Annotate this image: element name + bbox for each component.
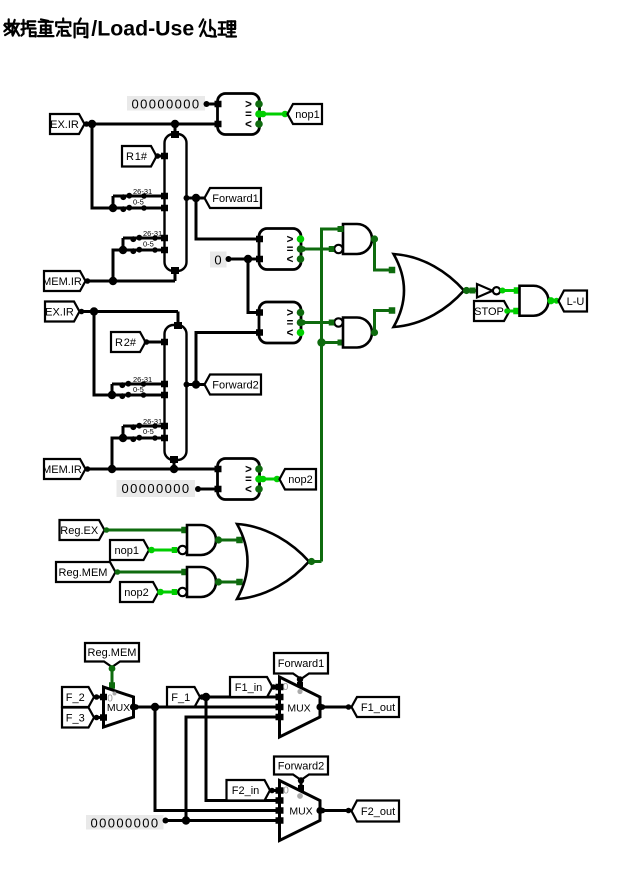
wire F_1 to M2 input1: [199, 694, 280, 700]
svg-text:26-31: 26-31: [133, 187, 152, 196]
wire EX.IR2 row y=311.5: [79, 309, 179, 315]
junction EX.IR at (92,124): [88, 120, 96, 128]
junction SP4 input at (123,438): [119, 434, 127, 442]
svg-text:F_1: F_1: [171, 692, 190, 704]
wire EX.IR junction down to X1 top pin: [174, 124, 177, 132]
svg-text:F1_in: F1_in: [235, 682, 263, 694]
tunnel Reg.MEM (MUX select): [85, 643, 139, 667]
svg-text:Reg.EX: Reg.EX: [60, 525, 99, 537]
tunnel nop2 (input, lower block): [120, 582, 159, 602]
splitter SP3 bits 26-31 / 0-5 of EX.IR: [112, 375, 165, 399]
wire Reg.MEM select to M1: [109, 665, 116, 689]
svg-text:0: 0: [214, 252, 221, 267]
wire EX.IR row y=124: [84, 121, 219, 127]
tunnel F_2: [62, 687, 94, 707]
wire MEM.IR2 row y=469: [85, 466, 218, 472]
wire EX.IR2 corner down to X2 top pin: [177, 312, 180, 327]
junction MEM.IR2 at (112,469): [108, 465, 116, 473]
tunnel R2#: [111, 332, 146, 352]
tunnel Forward2 (MUX select): [274, 757, 328, 781]
svg-text:MUX: MUX: [107, 702, 130, 714]
constant C4 value 00000000 (8-bit): [86, 815, 169, 830]
tunnel EX.IR (block 1): [50, 114, 85, 134]
tunnel STOP: [474, 301, 510, 321]
junction MEM.IR at (113,281): [109, 277, 117, 285]
wire X1 output to Forward1: [187, 197, 205, 200]
wire G6 output to OR G8: [219, 537, 243, 544]
svg-text:R 2#: R 2#: [115, 337, 137, 349]
tunnel nop2 (output of U4): [280, 469, 317, 490]
junction Forward2 at (196,384.5): [192, 380, 200, 388]
svg-text:F2_in: F2_in: [232, 785, 260, 797]
AND gate G5 (stall when STOP): [520, 286, 555, 316]
wire constant-0 down to U3 upper input: [248, 259, 259, 313]
wire F_2 to M1 input0: [94, 694, 104, 700]
wire Forward2 select to M3: [298, 777, 304, 791]
svg-text:F1_out: F1_out: [361, 702, 395, 714]
wire MEM.IR to X1 bottom pin: [174, 271, 177, 281]
wire C2 to U2 lower input: [229, 258, 260, 261]
svg-text:<: <: [287, 328, 294, 340]
wire G4 output to G5 input1: [500, 287, 521, 294]
constant C2 value 0: [210, 252, 232, 268]
svg-text:0-5: 0-5: [133, 385, 144, 394]
wire load-use vertical net x=321.5: [322, 229, 344, 562]
svg-text:R 1#: R 1#: [126, 151, 148, 163]
tunnel MEM.IR (block 1): [42, 271, 85, 291]
wire R2# to X2 pin: [144, 339, 164, 345]
AND gate G7 (Reg.MEM and not nop2): [178, 567, 222, 597]
wire Reg.EX to G6 input1: [104, 527, 188, 534]
svg-text:nop1: nop1: [295, 109, 319, 121]
comparator U4 (MEM.IR = 00000000): [215, 459, 263, 500]
wire G8 output up the load-use vertical: [312, 560, 322, 563]
tunnel R1#: [122, 146, 157, 167]
svg-text:MUX: MUX: [289, 806, 312, 818]
multiplexer M1 (2:1): [100, 687, 137, 727]
tunnel nop1 (input, lower block): [110, 540, 149, 560]
svg-text:Forward1: Forward1: [278, 658, 324, 670]
AND gate G1 (match1 and not-loaduse...): [329, 224, 378, 254]
svg-text:F_2: F_2: [66, 692, 85, 704]
wire MEM.IR2 up to splitter SP4: [112, 438, 123, 469]
wire C4 to M3 input3: [166, 819, 281, 822]
tunnel Forward1 (MUX select): [274, 653, 328, 679]
wire U3 '=' to G2 inverted input: [300, 320, 334, 326]
wire M3 output to F2_out: [320, 808, 352, 814]
OR gate G3: [394, 254, 471, 327]
svg-text:00000000: 00000000: [121, 481, 190, 496]
wire U1 '=' output to tunnel nop1: [260, 111, 289, 118]
wire G5 output to L-U: [551, 298, 560, 304]
comparator U3 (Forward2 vs 0): [256, 302, 304, 343]
tunnel Forward2 (output): [205, 375, 262, 395]
wire Forward1 down to U2 upper input: [196, 198, 259, 239]
tunnel F2_out: [352, 801, 400, 822]
junction SP1 input at (113,208): [109, 204, 117, 212]
svg-text:nop1: nop1: [115, 545, 139, 557]
wire M1 output down to M3 input2: [155, 707, 280, 811]
tunnel Reg.EX: [60, 520, 105, 540]
svg-text:MEM.IR: MEM.IR: [42, 464, 82, 476]
constant C3 value 00000000 (8-bit): [117, 480, 202, 497]
junction EX.IR at (175,124): [171, 120, 179, 128]
wire F2_in to M3 input0: [269, 788, 280, 794]
subcircuit X2 (forward unit 2): [161, 322, 190, 463]
wire G7 output to OR G8: [219, 579, 243, 586]
svg-text:EX.IR: EX.IR: [50, 119, 79, 131]
wire G3 output to NOT gate: [467, 288, 478, 294]
svg-text:MEM.IR: MEM.IR: [42, 276, 82, 288]
tunnel F2_in: [227, 780, 271, 801]
svg-text:Forward1: Forward1: [212, 193, 258, 205]
svg-text:nop2: nop2: [124, 587, 148, 599]
svg-text:0-5: 0-5: [143, 240, 154, 249]
junction M1 output at (155,707): [151, 703, 159, 711]
wire EX.IR down to splitter SP1: [92, 124, 113, 208]
svg-text:26-31: 26-31: [143, 229, 162, 238]
wire X2 bottom pin down to MEM.IR2 row: [173, 460, 176, 469]
splitter SP1 bits 26-31 / 0-5 of EX.IR: [113, 187, 165, 212]
wire EX.IR2 down to splitter SP3: [94, 312, 112, 396]
wire U4 '=' output to tunnel nop2: [260, 476, 281, 483]
svg-text:00000000: 00000000: [90, 815, 159, 830]
tunnel MEM.IR (block 2): [42, 459, 85, 479]
tunnel F1_out: [352, 697, 400, 717]
wire MEM.IR up to splitter SP2: [113, 250, 123, 281]
tunnel F_1: [167, 687, 200, 707]
tunnel Reg.MEM: [56, 562, 116, 582]
junction F_1 at (206,697): [202, 693, 210, 701]
wire X2 output to Forward2: [187, 383, 205, 386]
svg-text:F_3: F_3: [66, 712, 85, 724]
multiplexer M3 (4:1): [276, 781, 324, 841]
svg-text:F2_out: F2_out: [361, 806, 395, 818]
wire nop2 to G7 inverted input: [157, 589, 178, 596]
wire F1_in to M2 input0: [271, 684, 280, 690]
OR gate G8 (register stage active): [237, 524, 315, 599]
junction SP3 input at (112,395): [108, 391, 116, 399]
svg-text:0-5: 0-5: [143, 427, 154, 436]
AND gate G6 (Reg.EX and not nop1): [178, 525, 222, 555]
wire M2 output to F1_out: [320, 704, 352, 710]
svg-text:Reg.MEM: Reg.MEM: [88, 647, 137, 659]
svg-text:EX.IR: EX.IR: [45, 306, 74, 318]
multiplexer M2 (4:1): [276, 677, 324, 737]
svg-text:0-5: 0-5: [133, 198, 144, 207]
svg-text:Forward2: Forward2: [278, 760, 324, 772]
svg-text:26-31: 26-31: [133, 375, 152, 384]
tunnel F_3: [62, 708, 94, 728]
wire M1 output to M2 input2: [133, 704, 280, 710]
tunnel nop1 (output of U1): [288, 104, 323, 124]
splitter SP4 bits 26-31 / 0-5 of MEM.IR: [123, 417, 165, 442]
title 数据重定向/Load-Use处理: [4, 16, 236, 40]
svg-text:Reg.MEM: Reg.MEM: [59, 567, 108, 579]
NOT gate G4: [477, 284, 500, 298]
junction C4 net at (186,820.5): [182, 816, 190, 824]
svg-text:/Load-Use: /Load-Use: [91, 16, 194, 40]
wire U2 '=' to G1 inverted input: [300, 246, 334, 252]
svg-text:nop2: nop2: [288, 474, 312, 486]
wire R1# to X1 pin: [155, 153, 164, 159]
splitter SP2 bits 26-31 / 0-5 of MEM.IR: [123, 229, 165, 254]
tunnel L-U (load-use output): [559, 291, 588, 312]
svg-text:Forward2: Forward2: [212, 379, 258, 391]
wire C4 up to M2 input3: [186, 717, 280, 821]
svg-text:<: <: [245, 119, 252, 131]
svg-text:0: 0: [283, 682, 289, 693]
wire STOP to G5 input2: [504, 308, 520, 315]
subcircuit X1 (forward unit 1): [161, 131, 190, 274]
junction SP2 input at (123,250): [119, 246, 127, 254]
svg-text:STOP: STOP: [474, 306, 504, 318]
junction MEM.IR2 at (174,469): [170, 465, 178, 473]
wire G1 output to OR G3 input1: [375, 239, 396, 273]
wire Forward1 select to M2: [297, 676, 303, 688]
svg-text:<: <: [287, 254, 294, 266]
wire C3 to U4 lower input: [198, 488, 217, 491]
wire Reg.MEM to G7 input1: [115, 569, 188, 576]
wire F_1 down to M3 input1: [206, 697, 280, 801]
AND gate G2: [329, 318, 378, 348]
comparator U2 (Forward1 vs 0): [256, 229, 304, 270]
wire junction to G2 lower input: [322, 340, 344, 346]
junction EX.IR2 at (94,311.5): [90, 307, 98, 315]
svg-text:MUX: MUX: [287, 703, 310, 715]
wire MEM.IR row y=281: [85, 278, 176, 284]
svg-text:26-31: 26-31: [143, 417, 162, 426]
tunnel EX.IR (block 2): [45, 302, 80, 322]
wire nop1 to G6 inverted input: [148, 547, 178, 554]
junction constant-0 net at (248,259): [244, 255, 252, 263]
comparator U1 (EX.IR = 00000000): [215, 94, 263, 135]
tunnel F1_in: [230, 677, 273, 697]
wire C1 to U1 upper input: [207, 103, 219, 106]
tunnel Forward1 (output): [205, 188, 262, 208]
svg-text:L-U: L-U: [567, 296, 585, 308]
wire Forward2 up to U3 lower input: [196, 333, 259, 385]
junction Forward1 at (196,198): [192, 194, 200, 202]
svg-text:00000000: 00000000: [131, 96, 200, 111]
svg-text:0: 0: [283, 786, 289, 797]
svg-text:<: <: [245, 484, 252, 496]
junction load-use net at (321.5,342.5): [317, 338, 325, 346]
wire F_3 to M1 input1: [94, 715, 104, 721]
constant C1 value 00000000 (8-bit): [127, 96, 210, 111]
wire G2 output to OR G3 input2: [375, 307, 396, 332]
